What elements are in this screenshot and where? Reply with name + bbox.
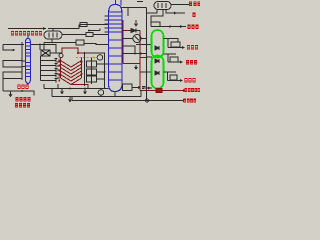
wire to label [168,61,180,63]
wire stub below fuse [88,30,100,32]
wire R1 to bus [93,34,108,36]
node J4 [21,90,23,92]
node J2 [84,88,86,90]
node dot [13,49,15,51]
tube V2 left pins [105,16,109,32]
red label bottom line [184,99,197,103]
wire B2 down [2,79,4,92]
red rectifier lattice [61,48,89,89]
transformer core [21,42,23,80]
green highlight capsule top [152,30,164,58]
wire V3 step left [147,10,158,14]
wire fuse row [80,23,108,32]
sense circle [97,55,103,61]
resistor R2 [171,42,180,47]
red feed line V2 [123,20,147,91]
wire J row [166,10,185,14]
wire ladder to K1 [31,45,56,54]
wire row 54 [123,53,147,55]
wire V3 to label [171,4,189,6]
red label right row1 [189,1,201,5]
diode D1 [131,29,140,33]
wire bottom-left [3,91,34,96]
wire stubs to green capsule [136,45,152,90]
box B1 (left) [3,61,22,68]
tube V2 top pin [115,0,117,5]
ground arrow left [9,91,12,97]
node arrow A [43,27,47,30]
wire B1 to transformer [22,60,25,62]
wire to label R6 [168,47,182,49]
red label bottom-left row1 [16,97,31,101]
transistor Q1 circle [123,20,147,55]
row D resistor network [164,54,184,64]
wire mains left [3,44,24,46]
wire row to R6 label [151,26,186,28]
long bottom wire [72,97,187,103]
relay K1 [41,50,50,56]
wire contact feed [84,53,86,58]
contact grid [84,58,86,86]
wire V1 cathode [44,39,52,43]
red label banner top-left [11,31,42,35]
box B2 (left lower) [3,72,22,79]
green highlight capsule bottom [152,56,164,89]
junction circle left [59,54,63,58]
tube V2 (tall blue) [109,0,123,92]
wire row 47 [123,46,135,54]
wire to fuse row [48,25,79,29]
red label row2 [188,25,199,29]
tube V1 (left capsule) [44,31,62,39]
arrow down junction [135,65,138,69]
ground arrow mid [135,20,138,26]
resistor R1 [86,33,93,37]
wire to label [168,80,181,82]
terminal strip pins [41,60,57,62]
node J3 [84,52,86,54]
wire V1 grid pin [52,29,54,32]
wire mid gray row [84,52,109,88]
coil L1 [76,40,84,45]
wire input top-left [8,28,46,30]
relay coil circle K2 [98,90,104,96]
tube V3 (top-right capsule) [147,2,190,29]
red bottom link [71,85,88,89]
wire K1 right [50,52,62,54]
sheet background [0,0,200,109]
lattice left ticks [57,62,60,78]
node J5 [39,44,41,46]
node J1 [69,88,71,90]
wire V1 plate [62,34,86,36]
red loop wires [62,48,84,53]
wire loop terminal [3,45,13,51]
ground arrows [61,89,64,94]
stubs to bus [97,63,109,65]
red label left mid [18,85,29,89]
red label heater [185,88,201,92]
red label row E [185,78,196,82]
bottom wires [44,84,146,102]
red heater line [140,89,187,93]
red label J [193,13,196,17]
top small mark [137,1,143,3]
diode stack in capsule [155,46,159,75]
wire K1 down [40,56,42,81]
red label row D [186,60,197,64]
bus vertical main [146,8,148,101]
wire L1 to bus [84,44,108,45]
capacitor box C1 [123,84,133,91]
red label bottom-left row2 [15,103,30,107]
wire V3 step 2 [151,10,163,27]
red box component [156,89,162,93]
row E resistor network [164,72,184,82]
wire top of tube to bus [122,2,147,101]
transformer T (blue ladder) [26,35,31,86]
resistor R3 [170,57,178,62]
terminal marks T1-T5 [55,59,58,83]
fuse F1 [80,23,87,27]
yellow dashed sense line [76,57,96,59]
resistor R4 [170,75,177,80]
red label R6 [187,45,198,49]
node J6 [134,53,136,55]
wire left drop [43,43,45,51]
row C resistor network [164,39,186,50]
